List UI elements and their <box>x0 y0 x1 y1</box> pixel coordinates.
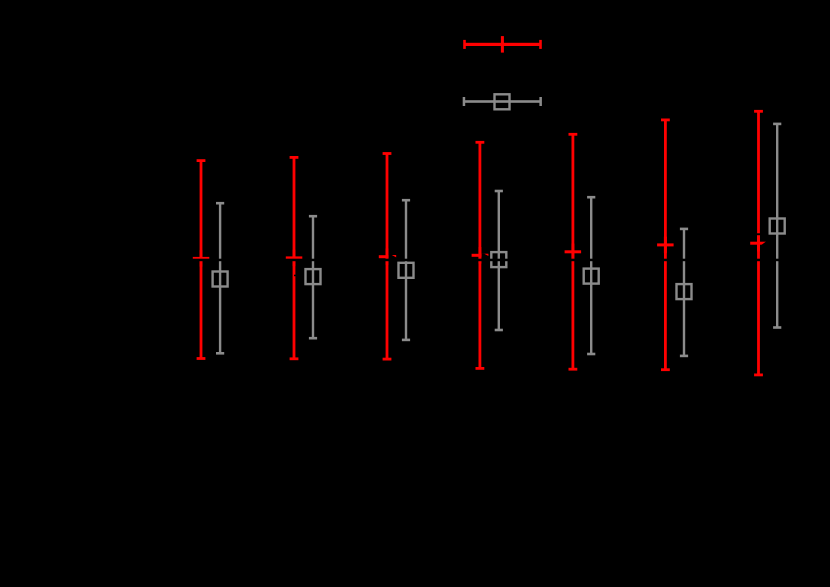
red plus marker group 2 <box>286 250 303 267</box>
leftover red fragment group3 <box>392 255 396 257</box>
gray errorbar group 7 <box>773 123 781 329</box>
red plus marker group 3 <box>379 248 396 265</box>
red errorbar group 7 <box>754 110 763 376</box>
black notch group7 vertical <box>757 233 760 235</box>
gray errorbar group 2 <box>309 215 317 340</box>
black occluding line across plot <box>190 259 781 262</box>
gray square marker group 7 <box>770 219 785 234</box>
red plus marker group 7 <box>750 235 767 252</box>
red errorbar group 5 <box>569 133 578 371</box>
black cut on group3 plus right arm <box>389 255 397 259</box>
gray errorbar group 1 <box>216 202 224 355</box>
black notch group2 red line <box>294 275 296 277</box>
gray errorbar group 4 <box>495 190 503 332</box>
red errorbar group 6 <box>661 119 670 372</box>
legend gray errorbar sample <box>463 94 542 109</box>
red errorbar group 3 <box>383 152 392 360</box>
legend red errorbar sample <box>463 36 542 53</box>
red errorbar group 1 <box>197 159 206 360</box>
red plus marker group 5 <box>565 244 582 260</box>
gray errorbar group 3 <box>402 199 410 341</box>
black cut on group7 plus right arm <box>761 241 767 245</box>
gray square marker group 2 <box>306 269 321 284</box>
gray square marker group 4 <box>491 252 506 267</box>
red errorbar group 4 <box>476 141 485 370</box>
gray errorbar group 6 <box>680 228 688 358</box>
gray square marker group 6 <box>677 284 692 299</box>
gray square marker group 1 <box>213 272 228 287</box>
red plus marker group 4 <box>472 247 489 263</box>
gray square marker group 3 <box>399 263 414 278</box>
gray errorbar group 5 <box>587 196 595 355</box>
red errorbar group 2 <box>290 156 299 360</box>
black cut on group4 plus right arm <box>482 254 490 257</box>
gray square marker group 5 <box>584 269 599 284</box>
red plus marker group 6 <box>657 237 674 254</box>
leftover red fragment group4 <box>484 254 488 256</box>
red plus marker group 1 <box>193 250 210 267</box>
